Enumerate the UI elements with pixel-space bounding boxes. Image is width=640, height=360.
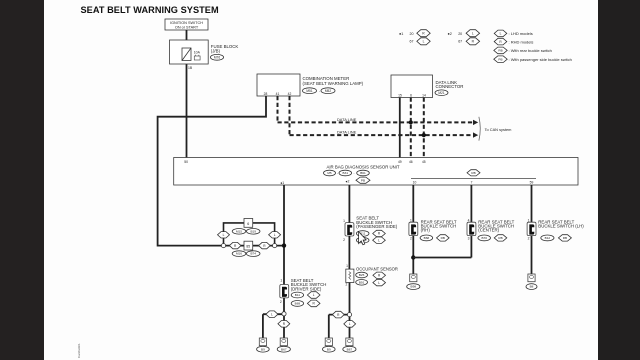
svg-text:20: 20 [458, 32, 462, 36]
svg-text:●1: ●1 [399, 32, 403, 36]
svg-text:L: L [349, 322, 351, 326]
svg-text:●2: ●2 [448, 32, 452, 36]
svg-text:14: 14 [422, 94, 426, 98]
svg-text:M5: M5 [327, 171, 332, 175]
svg-text:L: L [423, 40, 425, 44]
svg-text:1B: 1B [188, 66, 193, 70]
svg-text:B9: B9 [327, 347, 331, 351]
svg-text:(CENTER): (CENTER) [478, 228, 499, 233]
svg-text:-: - [353, 171, 354, 175]
svg-text:B25: B25 [359, 273, 365, 277]
svg-text:M76: M76 [214, 56, 220, 60]
svg-text:85: 85 [246, 245, 250, 249]
svg-text:L: L [223, 233, 225, 237]
svg-text:ON or START: ON or START [175, 26, 199, 30]
svg-text:PB: PB [361, 178, 365, 182]
svg-text:To CAN system: To CAN system [485, 127, 512, 132]
svg-text:-: - [319, 89, 320, 93]
svg-text:L: L [500, 32, 502, 36]
svg-text:6: 6 [410, 94, 412, 98]
svg-text:1: 1 [346, 264, 348, 268]
svg-text:1: 1 [280, 278, 282, 282]
svg-text:M51: M51 [306, 89, 312, 93]
svg-text:IGNITION SWITCH: IGNITION SWITCH [170, 21, 203, 25]
svg-text:B67: B67 [281, 347, 287, 351]
svg-text:L: L [271, 312, 273, 316]
svg-text:(SEAT BELT WARNING LAMP): (SEAT BELT WARNING LAMP) [303, 81, 364, 86]
svg-text:RB: RB [441, 236, 445, 240]
svg-text:L: L [472, 31, 474, 35]
svg-text:M15: M15 [236, 229, 242, 233]
svg-text:RB: RB [498, 236, 502, 240]
svg-text:: LHD models: : LHD models [509, 31, 533, 36]
svg-text:50: 50 [184, 160, 188, 164]
svg-text:BUCKLE SWITCH (LH): BUCKLE SWITCH (LH) [538, 224, 584, 229]
svg-text:: With passenger side buckle s: : With passenger side buckle switch [509, 57, 572, 62]
svg-text:-: - [337, 171, 338, 175]
svg-text:67: 67 [458, 40, 462, 44]
svg-text:(J/B): (J/B) [211, 49, 221, 54]
svg-text:B70: B70 [481, 236, 487, 240]
svg-text:CarWeb01: CarWeb01 [77, 343, 81, 358]
svg-text:L: L [378, 238, 380, 242]
svg-text:67: 67 [410, 40, 414, 44]
svg-text:2: 2 [528, 236, 530, 240]
svg-text:RB: RB [498, 49, 502, 53]
svg-text:B91: B91 [359, 280, 365, 284]
svg-text:B11: B11 [295, 293, 301, 297]
svg-text:B8: B8 [530, 285, 534, 289]
svg-text:59: 59 [530, 180, 534, 184]
svg-text:: With rear buckle switch: : With rear buckle switch [509, 48, 552, 53]
svg-text:OCCUPANT SENSOR: OCCUPANT SENSOR [356, 266, 398, 271]
svg-text:DATA LINE: DATA LINE [337, 129, 357, 134]
svg-text:2: 2 [345, 282, 347, 286]
svg-text:AIR BAG DIAGNOSIS SENSOR UNIT: AIR BAG DIAGNOSIS SENSOR UNIT [326, 165, 399, 170]
svg-text:RB: RB [471, 171, 475, 175]
svg-text:42: 42 [288, 92, 292, 96]
svg-text:45: 45 [422, 160, 426, 164]
svg-text:: RHD models: : RHD models [509, 39, 534, 44]
svg-text:1: 1 [343, 219, 345, 223]
svg-text:B98: B98 [411, 285, 417, 289]
svg-text:10: 10 [413, 180, 417, 184]
svg-text:B68: B68 [424, 236, 430, 240]
svg-text:M16: M16 [236, 252, 242, 256]
svg-text:B9: B9 [261, 347, 265, 351]
svg-text:SEAT BELT WARNING SYSTEM: SEAT BELT WARNING SYSTEM [81, 5, 219, 15]
svg-text:15: 15 [398, 94, 402, 98]
svg-text:46: 46 [409, 160, 413, 164]
svg-text:L: L [378, 281, 380, 285]
svg-text:3: 3 [468, 236, 470, 240]
svg-text:6: 6 [247, 222, 249, 226]
svg-text:2: 2 [280, 300, 282, 304]
svg-text:2: 2 [410, 236, 412, 240]
svg-text:L: L [313, 293, 315, 297]
svg-text:28: 28 [264, 92, 268, 96]
svg-text:B31: B31 [343, 171, 349, 175]
svg-text:10A: 10A [194, 50, 201, 54]
svg-text:2: 2 [343, 238, 345, 242]
svg-text:(DRIVER SIDE): (DRIVER SIDE) [291, 286, 322, 291]
svg-text:B19: B19 [250, 229, 256, 233]
svg-text:(PASSENGER SIDE): (PASSENGER SIDE) [356, 224, 398, 229]
svg-text:41: 41 [276, 92, 280, 96]
svg-text:B69: B69 [295, 302, 301, 306]
svg-text:●1: ●1 [280, 181, 284, 185]
svg-text:PB: PB [498, 57, 502, 61]
svg-text:CONNECTOR: CONNECTOR [436, 84, 464, 89]
svg-text:RB: RB [563, 236, 567, 240]
svg-text:M21: M21 [438, 91, 444, 95]
svg-text:49: 49 [398, 160, 402, 164]
svg-text:(RH): (RH) [421, 228, 431, 233]
svg-text:B61: B61 [360, 171, 366, 175]
svg-text:B12: B12 [545, 236, 551, 240]
svg-text:●2: ●2 [345, 179, 349, 183]
svg-text:B74: B74 [250, 252, 256, 256]
svg-text:B67: B67 [347, 347, 353, 351]
svg-text:7: 7 [471, 180, 473, 184]
svg-text:M52: M52 [325, 89, 331, 93]
svg-text:L: L [274, 233, 276, 237]
svg-text:DATA LINE: DATA LINE [337, 117, 357, 122]
svg-text:20: 20 [410, 32, 414, 36]
